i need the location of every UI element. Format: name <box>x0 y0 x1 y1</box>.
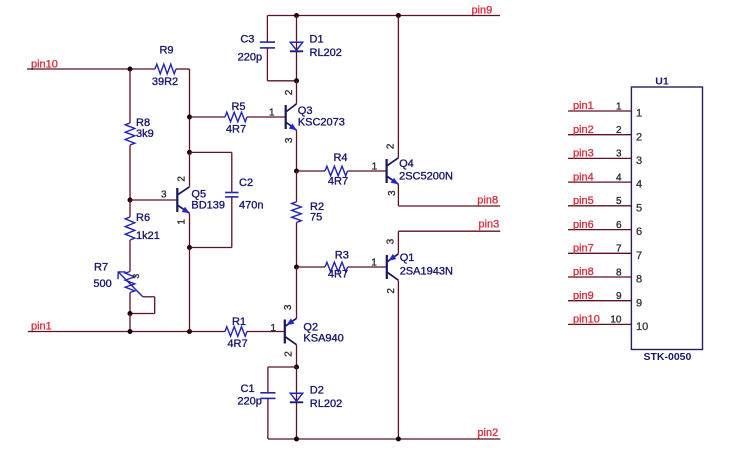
pin number U1-2 outside <box>616 125 622 136</box>
junction bottom rail / D2 <box>294 436 299 441</box>
svg-text:R4: R4 <box>333 152 347 164</box>
wire R5 left lead <box>190 116 226 118</box>
wire R2 bottom lead <box>295 222 297 267</box>
net label U1 pin10 <box>573 314 600 326</box>
junction R4 branch <box>294 168 299 173</box>
pin number U1-8 inside <box>636 274 642 286</box>
junction R5 branch <box>187 114 192 119</box>
wire node to R6 <box>129 200 131 217</box>
svg-text:pin9: pin9 <box>573 290 594 302</box>
pin number U1-5 inside <box>636 202 642 214</box>
potentiometer R7 <box>93 261 142 297</box>
wire R7 wiper to node <box>130 312 155 314</box>
net label U1 pin8 <box>573 266 594 278</box>
transistor Q1 2SA1943N <box>387 252 453 280</box>
junction pin1/C2-col <box>187 329 192 334</box>
junction bottom rail / Q1 <box>396 437 401 442</box>
junction R7 wiper node <box>127 311 132 316</box>
svg-text:pin1: pin1 <box>573 100 594 112</box>
wire R1 to Q2 base <box>247 330 285 332</box>
pin label Q5-3 <box>161 189 167 200</box>
svg-text:10: 10 <box>610 315 622 326</box>
wire U1 pin7 <box>568 252 631 254</box>
svg-text:KSA940: KSA940 <box>303 333 343 345</box>
svg-text:3: 3 <box>284 137 295 143</box>
svg-text:5: 5 <box>616 196 622 207</box>
junction C3/D1 bottom <box>294 78 299 83</box>
svg-text:pin1: pin1 <box>31 320 52 332</box>
svg-text:C3: C3 <box>240 33 254 45</box>
svg-text:pin5: pin5 <box>573 195 594 207</box>
svg-text:1: 1 <box>371 257 377 268</box>
pin label Q4-3 <box>387 190 398 196</box>
pin number U1-9 inside <box>636 297 642 309</box>
resistor R2 <box>292 201 324 223</box>
svg-text:KSC2073: KSC2073 <box>298 116 345 128</box>
svg-text:R6: R6 <box>136 212 150 224</box>
svg-text:R1: R1 <box>232 316 246 328</box>
wire R4 left lead <box>297 170 326 172</box>
svg-text:pin2: pin2 <box>573 124 594 136</box>
svg-text:2SC5200N: 2SC5200N <box>399 171 453 183</box>
wire col2 Q5 emitter <box>188 213 190 247</box>
svg-text:4R7: 4R7 <box>227 338 247 350</box>
svg-text:3: 3 <box>283 304 294 310</box>
net label pin3 <box>478 219 499 231</box>
svg-text:4R7: 4R7 <box>226 123 246 135</box>
svg-text:C2: C2 <box>239 177 253 189</box>
svg-text:Q2: Q2 <box>303 321 318 333</box>
wire wiper node down <box>129 313 131 331</box>
pin number U1-10 inside <box>636 321 648 333</box>
svg-text:470n: 470n <box>239 200 263 212</box>
svg-text:RL202: RL202 <box>310 398 342 410</box>
pin number U1-7 inside <box>636 250 642 262</box>
resistor R6 <box>125 212 160 242</box>
svg-text:2: 2 <box>176 176 187 182</box>
wire D2 vertical <box>295 367 297 439</box>
junction Q2/C1/D2 <box>294 364 299 369</box>
junction pin10/R8/R9 <box>128 66 133 71</box>
net label pin1 <box>31 320 52 332</box>
svg-text:R7: R7 <box>94 261 108 273</box>
svg-text:8: 8 <box>636 274 642 286</box>
pin label Q5-1 <box>176 219 187 225</box>
svg-text:220p: 220p <box>237 396 261 408</box>
wire R5 to Q3 base <box>247 116 286 118</box>
svg-text:1: 1 <box>636 108 642 120</box>
wire U1 pin9 <box>568 300 631 302</box>
svg-text:220p: 220p <box>238 51 262 63</box>
pin number U1-7 outside <box>616 244 622 255</box>
svg-text:1: 1 <box>176 219 187 225</box>
wire R3 left lead <box>296 266 325 268</box>
wire U1 pin6 <box>568 229 631 231</box>
svg-text:pin6: pin6 <box>573 219 594 231</box>
wire pin3 corner down <box>397 231 399 253</box>
junction C2 top / Q5 collector <box>187 150 192 155</box>
svg-text:2: 2 <box>636 131 642 143</box>
svg-text:R5: R5 <box>231 101 245 113</box>
wire R9 right lead <box>176 68 190 70</box>
net label pin9 <box>472 4 493 16</box>
svg-text:2: 2 <box>386 288 397 294</box>
pin label Q2-2 <box>283 351 294 357</box>
wire Q3 emitter rail <box>296 130 298 171</box>
wire R4 to Q4 base <box>348 170 387 172</box>
svg-text:1: 1 <box>270 323 276 334</box>
wire R3 to Q1 base <box>348 266 387 268</box>
wire pin10 junction to R8 <box>129 69 131 123</box>
value STK-0050 <box>643 351 691 363</box>
wire C2 bottom vertical <box>231 197 233 248</box>
pin number U1-8 outside <box>616 267 622 278</box>
diode D2 RL202 <box>290 384 342 410</box>
svg-text:500: 500 <box>93 278 111 290</box>
wire Q3 collector rail <box>296 81 298 104</box>
svg-text:4: 4 <box>636 179 642 191</box>
wire U1 pin2 <box>568 134 631 136</box>
resistor R8 <box>125 117 154 145</box>
wire C1 bottom vertical <box>267 398 269 439</box>
transistor Q3 KSC2073 <box>286 104 345 131</box>
pin number U1-10 outside <box>610 315 622 326</box>
net label U1 pin6 <box>573 219 594 231</box>
net label U1 pin7 <box>573 243 594 255</box>
pin label Q3-1 <box>269 107 275 118</box>
svg-text:pin8: pin8 <box>573 266 594 278</box>
svg-text:2: 2 <box>386 143 397 149</box>
pin number U1-4 inside <box>636 179 642 191</box>
net label U1 pin3 <box>573 148 594 160</box>
wire R7 bottom lead <box>129 292 131 313</box>
junction pin1/R7 <box>127 329 132 334</box>
pin number U1-1 inside <box>636 108 642 120</box>
svg-text:7: 7 <box>636 250 642 262</box>
wire Q5 base <box>130 199 177 201</box>
svg-text:RL202: RL202 <box>310 47 342 59</box>
wire C1 top vertical <box>267 367 269 393</box>
svg-text:10: 10 <box>636 321 648 333</box>
svg-text:D2: D2 <box>310 384 324 396</box>
svg-text:75: 75 <box>310 212 322 224</box>
svg-text:pin7: pin7 <box>573 243 594 255</box>
junction top rail / D1 <box>294 13 299 18</box>
svg-text:2: 2 <box>283 351 294 357</box>
net label U1 pin9 <box>573 290 594 302</box>
wire U1 pin3 <box>568 157 631 159</box>
pin label Q1-2 <box>386 288 397 294</box>
wire R8 to node <box>129 145 131 200</box>
wire D1 vertical <box>296 15 298 80</box>
capacitor C3 <box>238 33 275 63</box>
wire Q4 emitter rail <box>397 184 399 206</box>
pin number U1-5 outside <box>616 196 622 207</box>
wire R9 corner down <box>189 69 191 117</box>
wire top rail <box>267 14 500 16</box>
transistor Q4 2SC5200N <box>387 158 453 185</box>
svg-text:pin8: pin8 <box>477 194 498 206</box>
wire C1 top horizontal <box>268 366 297 368</box>
junction C2 bottom / Q5 emitter <box>187 245 192 250</box>
pin number U1-6 inside <box>636 226 642 238</box>
svg-text:1: 1 <box>616 101 622 112</box>
svg-text:BD139: BD139 <box>191 200 225 212</box>
wire C2 top horizontal <box>190 151 232 153</box>
wire C2 top vertical <box>231 152 233 192</box>
pin number U1-3 outside <box>616 149 622 160</box>
capacitor C2 <box>225 177 263 212</box>
svg-text:5: 5 <box>636 202 642 214</box>
svg-text:R3: R3 <box>335 249 349 261</box>
pin label Q2-1 <box>270 323 276 334</box>
svg-text:39R2: 39R2 <box>152 76 178 88</box>
wire U1 pin10 <box>568 323 631 325</box>
svg-text:U1: U1 <box>655 76 669 88</box>
pin label Q3-2 <box>284 89 295 95</box>
pin number U1-2 inside <box>636 131 642 143</box>
capacitor C1 <box>237 383 275 407</box>
designator U1 <box>655 76 669 88</box>
svg-text:1: 1 <box>372 161 378 172</box>
svg-text:4: 4 <box>616 172 622 183</box>
resistor R5 <box>225 101 247 135</box>
svg-text:3: 3 <box>161 189 167 200</box>
wire C2 bottom horizontal <box>189 246 231 248</box>
net label pin2 <box>477 427 498 439</box>
wire pin3 <box>398 230 500 232</box>
transistor Q5 BD139 <box>177 187 225 214</box>
component U1 box <box>631 87 702 350</box>
svg-text:pin10: pin10 <box>573 314 600 326</box>
svg-text:C1: C1 <box>241 383 255 395</box>
wire C3 bottom horizontal <box>267 80 296 82</box>
svg-text:2: 2 <box>616 125 622 136</box>
svg-text:2SA1943N: 2SA1943N <box>400 265 453 277</box>
svg-text:pin3: pin3 <box>478 219 499 231</box>
wire col2 down 1 <box>189 117 191 152</box>
wire C3 bottom vertical <box>266 48 268 81</box>
resistor R3 <box>325 249 349 280</box>
wire R6 to R7 <box>129 240 131 272</box>
net label U1 pin4 <box>573 171 594 183</box>
net label U1 pin1 <box>573 100 594 112</box>
wire pin8 <box>398 205 500 207</box>
pin label Q2-3 <box>283 304 294 310</box>
svg-text:D1: D1 <box>310 33 324 45</box>
wire pin10 horizontal <box>27 68 155 70</box>
svg-text:Q3: Q3 <box>298 105 313 117</box>
svg-text:1: 1 <box>269 107 275 118</box>
resistor R4 <box>325 152 348 188</box>
wire U1 pin5 <box>568 205 631 207</box>
wire pin1 horizontal <box>28 330 225 332</box>
svg-text:R9: R9 <box>159 44 173 56</box>
wire R2 top lead <box>296 171 298 202</box>
svg-text:3k9: 3k9 <box>136 128 154 140</box>
pin number U1-1 outside <box>616 101 622 112</box>
junction R3 branch <box>294 264 299 269</box>
wire Q4 collector rail <box>397 16 399 158</box>
pin label Q4-2 <box>386 143 397 149</box>
pin label Q1-3 <box>386 238 397 244</box>
svg-text:8: 8 <box>616 267 622 278</box>
svg-text:6: 6 <box>616 220 622 231</box>
diode D1 RL202 <box>290 33 342 59</box>
wire Q2 collector rail <box>295 345 297 367</box>
svg-text:STK-0050: STK-0050 <box>643 351 691 363</box>
svg-text:6: 6 <box>636 226 642 238</box>
pin number U1-3 inside <box>636 155 642 167</box>
wire R7 wiper vertical <box>154 297 156 314</box>
wire bottom rail <box>268 438 501 440</box>
svg-text:7: 7 <box>616 244 622 255</box>
pin number U1-4 outside <box>616 172 622 183</box>
svg-text:3: 3 <box>387 190 398 196</box>
svg-text:4R7: 4R7 <box>328 175 348 187</box>
svg-text:3: 3 <box>616 149 622 160</box>
net label U1 pin5 <box>573 195 594 207</box>
pin number U1-6 outside <box>616 220 622 231</box>
wire Q1 collector rail <box>397 280 399 439</box>
pin number U1-9 outside <box>616 291 622 302</box>
wire R7 wiper horizontal <box>143 296 155 298</box>
svg-text:pin3: pin3 <box>573 148 594 160</box>
svg-text:Q1: Q1 <box>400 252 415 264</box>
svg-text:1k21: 1k21 <box>136 230 160 242</box>
wire Q2 emitter rail <box>295 267 297 318</box>
svg-text:3: 3 <box>636 155 642 167</box>
pin label Q1-1 <box>371 257 377 268</box>
junction R8/R6/Q5-base <box>128 197 133 202</box>
junction top rail / Q4 <box>396 13 401 18</box>
svg-text:9: 9 <box>636 297 642 309</box>
svg-text:4R7: 4R7 <box>328 268 348 280</box>
svg-text:Q4: Q4 <box>399 158 414 170</box>
svg-text:2: 2 <box>284 89 295 95</box>
wire C3 top vertical <box>266 15 268 42</box>
pin label Q3-3 <box>284 137 295 143</box>
wire U1 pin8 <box>568 276 631 278</box>
wire U1 pin1 <box>568 110 631 112</box>
transistor Q2 KSA940 <box>285 318 344 344</box>
svg-text:3: 3 <box>131 274 141 279</box>
wire col2 Q5 collector <box>189 152 191 186</box>
resistor R9 <box>152 44 178 88</box>
wire col2 down to pin1 <box>188 247 190 331</box>
svg-text:9: 9 <box>616 291 622 302</box>
net label U1 pin2 <box>573 124 594 136</box>
wire U1 pin4 <box>568 181 631 183</box>
net label pin10 <box>31 58 58 70</box>
pin label Q4-1 <box>372 161 378 172</box>
svg-text:pin9: pin9 <box>472 4 493 16</box>
resistor R1 <box>225 316 248 350</box>
svg-text:pin2: pin2 <box>477 427 498 439</box>
svg-text:3: 3 <box>386 238 397 244</box>
net label pin8 <box>477 194 498 206</box>
pin label Q5-2 <box>176 176 187 182</box>
svg-text:pin4: pin4 <box>573 171 594 183</box>
